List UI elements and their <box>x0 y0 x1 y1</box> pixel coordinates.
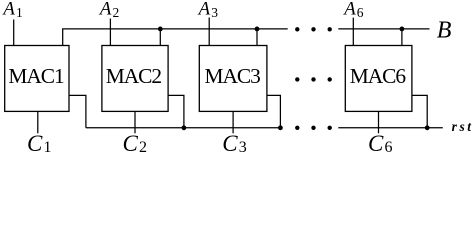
node B-MAC6 junction <box>400 27 405 32</box>
svg-text:rst: rst <box>452 119 474 134</box>
svg-text:C: C <box>27 131 43 156</box>
wire rst stub MAC3 <box>267 95 281 127</box>
node rst-MAC3 junction <box>278 125 283 130</box>
svg-text:C: C <box>368 131 384 156</box>
wire A3 input <box>208 18 210 46</box>
wire C3 output <box>232 112 234 134</box>
wire rst line right segment <box>338 127 443 129</box>
svg-text:1: 1 <box>16 5 23 20</box>
svg-text:A: A <box>98 0 112 20</box>
svg-text:A: A <box>1 0 15 20</box>
wire B stub into MAC2 <box>159 29 161 46</box>
svg-text:2: 2 <box>113 5 120 20</box>
svg-text:2: 2 <box>139 139 147 156</box>
wire rst stub MAC6 <box>412 95 427 127</box>
wire B bus left segment <box>63 29 288 46</box>
svg-text:A: A <box>197 0 211 20</box>
MAC1 block U1 <box>5 46 69 112</box>
MAC2 block U2 <box>102 46 168 112</box>
wire B stub into MAC3 <box>256 29 258 46</box>
MAC6 block U6 <box>345 46 412 112</box>
node rst-MAC2 junction <box>182 125 187 130</box>
svg-text:MAC1: MAC1 <box>8 64 64 88</box>
ellipsis dots bottom row <box>295 126 299 130</box>
svg-text:MAC6: MAC6 <box>350 64 407 88</box>
wire rst line left segment <box>86 127 282 129</box>
svg-text:A: A <box>342 0 356 20</box>
wire A1 input <box>13 20 15 46</box>
ellipsis dots middle row <box>295 77 299 81</box>
svg-text:6: 6 <box>385 139 393 156</box>
svg-text:B: B <box>437 18 452 44</box>
wire rst stub MAC2 <box>168 95 184 127</box>
wire A2 input <box>109 19 111 46</box>
node B-MAC3 junction <box>255 27 260 32</box>
wire C1 output <box>37 112 39 134</box>
wire C6 output <box>378 112 380 134</box>
wire rst stub MAC1 <box>69 95 86 127</box>
svg-text:3: 3 <box>239 139 247 156</box>
wire B bus right segment <box>338 28 429 30</box>
wire A6 input <box>352 18 354 46</box>
node rst-MAC6 junction <box>425 125 430 130</box>
wire B stub into MAC6 <box>401 29 403 46</box>
svg-text:C: C <box>222 131 238 156</box>
svg-text:3: 3 <box>211 5 218 20</box>
svg-text:MAC3: MAC3 <box>205 64 261 88</box>
svg-text:C: C <box>123 131 139 156</box>
svg-text:1: 1 <box>44 139 52 156</box>
svg-text:6: 6 <box>357 5 364 20</box>
MAC3 block U3 <box>199 46 267 112</box>
node B-MAC2 junction <box>158 27 163 32</box>
svg-text:MAC2: MAC2 <box>106 64 162 88</box>
wire C2 output <box>134 112 136 134</box>
ellipsis dots top row <box>295 27 299 31</box>
